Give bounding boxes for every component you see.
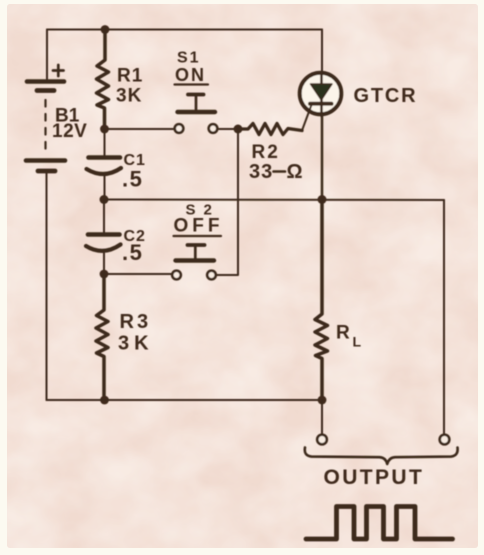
wire S1 to node: [218, 128, 239, 130]
svg-text:GTCR: GTCR: [354, 85, 418, 107]
output terminal right: [440, 435, 450, 445]
capacitor C1: [87, 129, 122, 200]
switch S2 pushbutton: [172, 245, 216, 279]
svg-text:S1: S1: [177, 50, 201, 67]
svg-text:R: R: [336, 323, 350, 344]
node RL bottom: [318, 396, 327, 405]
underline OFF: [174, 235, 222, 237]
resistor R3: [96, 274, 108, 400]
svg-text:.5: .5: [122, 240, 143, 265]
node C1-C2 junction: [100, 195, 109, 204]
battery plus sign: [53, 65, 64, 76]
node C2 bottom junction: [100, 270, 109, 279]
output terminal left: [317, 435, 327, 445]
wire top rail: [47, 29, 322, 31]
wire node down to S2: [216, 129, 239, 275]
svg-text:OFF: OFF: [174, 216, 224, 237]
output brace: [305, 448, 458, 465]
output waveform square wave: [306, 507, 453, 540]
svg-text:R2: R2: [252, 142, 280, 163]
svg-text:12V: 12V: [52, 121, 87, 142]
node top of R1: [101, 25, 110, 34]
svg-text:R1: R1: [117, 66, 143, 87]
wire right rail down: [443, 200, 445, 435]
svg-text:3K: 3K: [118, 333, 154, 355]
wire battery bottom lead: [46, 173, 48, 400]
resistor R1: [97, 30, 109, 130]
wire C2 junction to S2: [104, 273, 172, 275]
svg-text:R3: R3: [120, 311, 152, 333]
svg-text:33: 33: [249, 161, 273, 183]
node SCR cathode junction: [318, 195, 327, 204]
switch S1 pushbutton: [175, 95, 218, 133]
svg-text:.5: .5: [122, 167, 143, 192]
svg-text:3K: 3K: [116, 86, 142, 107]
wire mid rail to right: [104, 199, 444, 202]
wire to left output terminal: [321, 400, 323, 435]
resistor RL: [315, 200, 328, 401]
wire R1 bottom to S1: [105, 128, 175, 130]
svg-text:OUTPUT: OUTPUT: [324, 466, 425, 489]
wire bottom rail: [47, 399, 323, 401]
SCR GTCR: [300, 30, 342, 200]
svg-text:L: L: [353, 334, 362, 350]
resistor R2: [238, 124, 302, 135]
svg-text:Ω: Ω: [287, 161, 303, 183]
wire battery top lead: [46, 30, 48, 80]
node R3 bottom: [100, 396, 109, 405]
underline ON: [175, 83, 209, 85]
node gate junction: [234, 125, 243, 134]
node R1 bottom: [100, 125, 109, 134]
svg-text:ON: ON: [175, 65, 206, 85]
battery B1: [26, 82, 65, 172]
capacitor C2: [86, 200, 121, 275]
